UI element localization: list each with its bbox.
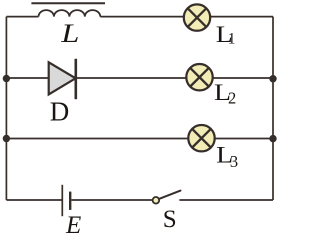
svg-text:L: L	[60, 19, 79, 48]
junction dot left row2	[3, 75, 10, 82]
wire row2 right	[77, 77, 273, 79]
junction dot right row3	[269, 135, 276, 142]
svg-text:2: 2	[228, 89, 236, 108]
svg-text:S: S	[163, 206, 177, 233]
wire top-right segment	[100, 16, 273, 18]
wire bottom-left segment	[6, 199, 61, 201]
wire left vertical	[5, 17, 7, 200]
wire right vertical	[272, 17, 274, 200]
label L1	[216, 22, 236, 47]
lamp L3	[188, 125, 214, 151]
diode D	[49, 59, 76, 99]
battery E long plate	[61, 185, 63, 216]
lamp L2	[186, 64, 212, 90]
wire bottom-middle segment	[71, 199, 152, 201]
lamp L1	[184, 4, 210, 30]
inductor L coil	[39, 10, 101, 17]
battery E short plate	[69, 192, 71, 210]
svg-text:D: D	[50, 96, 70, 126]
wire row2 left	[6, 77, 48, 79]
switch S pivot	[153, 197, 160, 204]
wire top-left segment	[6, 16, 38, 18]
switch S lever	[158, 191, 180, 200]
svg-text:3: 3	[230, 152, 238, 171]
label L3	[216, 143, 238, 171]
label L2	[214, 80, 236, 107]
inductor L core bar	[31, 2, 105, 4]
svg-text:1: 1	[228, 30, 236, 47]
junction dot left row3	[3, 135, 10, 142]
svg-text:E: E	[65, 212, 81, 234]
junction dot right row2	[269, 75, 276, 82]
wire bottom-right segment	[179, 199, 273, 201]
wire row3	[6, 138, 273, 140]
